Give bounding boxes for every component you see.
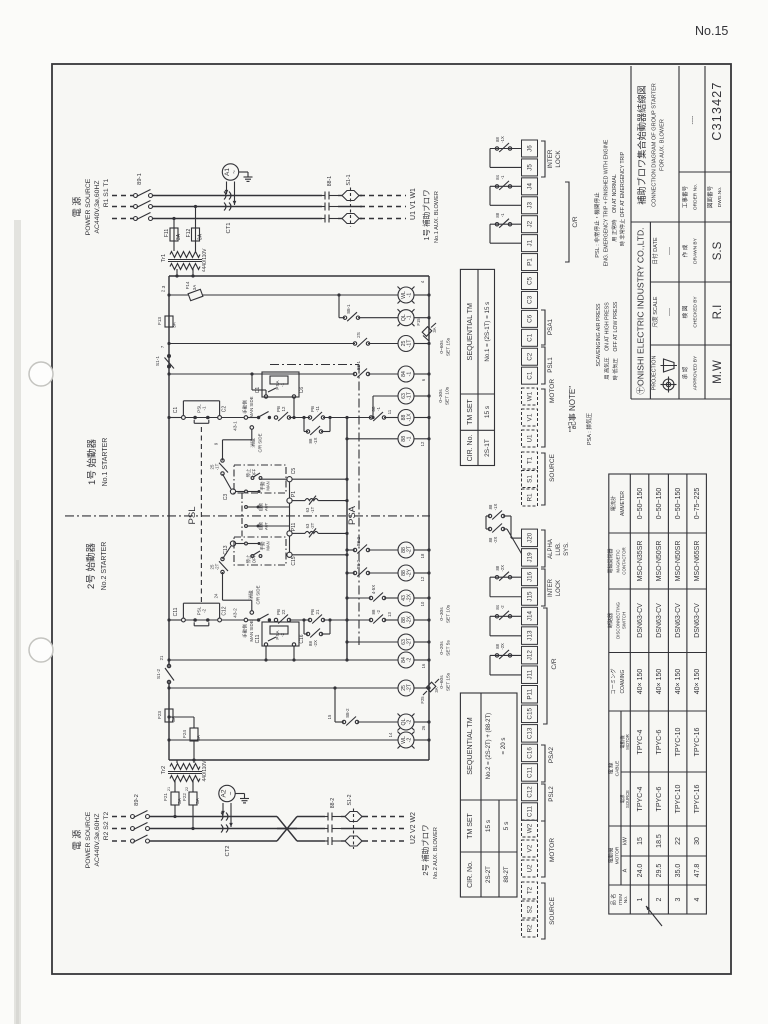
svg-text:21: 21 xyxy=(167,787,171,791)
pushbutton PB-12 xyxy=(274,416,277,419)
power line T1 to motor dashed xyxy=(360,218,406,220)
svg-text:PSL: PSL xyxy=(187,507,198,525)
terminal J13 strip2 xyxy=(522,627,538,645)
table sequential TM No.2 xyxy=(460,693,517,897)
svg-text:LOCK: LOCK xyxy=(555,150,562,168)
svg-text:0~60s: 0~60s xyxy=(439,340,445,354)
svg-text:84-2: 84-2 xyxy=(401,657,413,663)
svg-text:24: 24 xyxy=(214,593,219,598)
power line R1 to motor dashed xyxy=(360,195,406,197)
svg-text:88-1: 88-1 xyxy=(401,436,413,442)
svg-text:MOTOR: MOTOR xyxy=(549,838,556,862)
wire PB-22 to PB-21 xyxy=(289,619,310,621)
paper area xyxy=(52,64,731,974)
CT1 marks xyxy=(224,192,231,211)
overload S1-1 heater top xyxy=(342,191,359,201)
svg-text:MOTOR: MOTOR xyxy=(549,379,556,403)
svg-text:CT2: CT2 xyxy=(225,846,231,857)
svg-text:C13: C13 xyxy=(527,727,534,739)
relay 88-2T coil xyxy=(398,542,414,558)
svg-text:FOR AUX. BLOWER: FOR AUX. BLOWER xyxy=(660,119,666,171)
terminal J6 strip1 xyxy=(522,140,538,157)
svg-text:S1-1: S1-1 xyxy=(155,356,161,366)
terminal J1 strip1 xyxy=(522,235,538,252)
terminal S1 source1 xyxy=(522,471,538,488)
switch 89-2 pole 1 xyxy=(131,811,150,819)
node rung 25-2T to QL-2 xyxy=(333,686,336,689)
svg-text:PSL1: PSL1 xyxy=(547,357,554,373)
item row arrow xyxy=(646,906,662,926)
component table row 3 xyxy=(675,488,682,902)
rung 88-2T wire xyxy=(347,549,355,551)
bracket PSL2 xyxy=(541,784,545,821)
svg-text:断路器: 断路器 xyxy=(607,613,614,628)
svg-text:0~30s: 0~30s xyxy=(439,607,445,621)
svg-text:= 20 s: = 20 s xyxy=(500,737,507,754)
svg-text:C1: C1 xyxy=(527,333,534,342)
svg-text:品 名: 品 名 xyxy=(609,894,617,906)
svg-text:C3: C3 xyxy=(527,295,534,304)
svg-text:日付 DATE: 日付 DATE xyxy=(651,237,659,265)
bracket INTER LOCK strip1 xyxy=(541,141,545,177)
svg-text:15 s: 15 s xyxy=(485,819,492,832)
rung 88-2Y wire xyxy=(347,572,355,574)
svg-text:F14: F14 xyxy=(185,281,190,289)
svg-text:J19: J19 xyxy=(527,552,534,563)
switch 89-2 pole 3 xyxy=(131,835,150,843)
svg-text:10: 10 xyxy=(420,601,425,606)
wire CT1 to A1 xyxy=(226,182,228,195)
svg-text:3A: 3A xyxy=(192,285,197,290)
component table headers xyxy=(607,491,631,906)
svg-text:PSA2: PSA2 xyxy=(548,746,555,763)
svg-text:24.0: 24.0 xyxy=(637,864,644,878)
svg-text:89-1: 89-1 xyxy=(137,173,143,185)
svg-text:C6: C6 xyxy=(527,314,534,323)
control bus top horizontal xyxy=(169,275,429,277)
svg-text:LOCK: LOCK xyxy=(556,580,562,596)
svg-text:J1: J1 xyxy=(527,239,534,246)
svg-text:DSN63-CV: DSN63-CV xyxy=(656,603,663,638)
terminal P11 strip2 xyxy=(522,686,538,704)
pressure switch PSA-1 xyxy=(262,372,299,397)
transformer Tr2 xyxy=(168,760,202,792)
svg-text:MAN SIDE: MAN SIDE xyxy=(249,396,254,417)
svg-text:C3: C3 xyxy=(223,494,229,501)
rung 25-1T wire xyxy=(167,342,170,345)
svg-text:図面番号: 図面番号 xyxy=(707,185,714,208)
component table row 1 xyxy=(637,488,644,902)
svg-text:-1X: -1X xyxy=(493,504,498,511)
svg-text:3A: 3A xyxy=(196,734,201,741)
relay 88-2Y coil xyxy=(398,565,414,581)
svg-text:R1: R1 xyxy=(527,493,534,502)
svg-text:CIR. No.: CIR. No. xyxy=(467,435,474,462)
svg-text:----: ---- xyxy=(667,247,673,255)
terminal J12 strip2 xyxy=(522,646,538,664)
svg-text:C16: C16 xyxy=(299,634,305,643)
svg-text:CABLE: CABLE xyxy=(615,761,621,777)
bracket MOTOR strip2 xyxy=(541,821,545,877)
bracket INTER LOCK strip2 xyxy=(541,569,545,606)
svg-text:V2: V2 xyxy=(527,844,534,852)
terminal C1 of PSA-1 xyxy=(264,395,267,398)
svg-text:TPYC-16: TPYC-16 xyxy=(694,785,701,814)
svg-text:電 源: 電 源 xyxy=(72,830,82,851)
selector switch box 1 xyxy=(234,465,286,493)
AUT contacts between selectors xyxy=(242,493,290,541)
svg-text:PSA: PSA xyxy=(347,505,358,525)
svg-text:29.5: 29.5 xyxy=(656,864,663,878)
fuse F22 xyxy=(189,792,197,805)
power line R2 to motor dashed xyxy=(363,816,406,818)
svg-text:12: 12 xyxy=(420,576,425,581)
rung 25-2T wire xyxy=(167,686,170,689)
svg-text:MOTOR: MOTOR xyxy=(625,734,630,750)
svg-text:SET 15s: SET 15s xyxy=(446,672,452,691)
relay 43-2X coil xyxy=(398,590,414,606)
svg-text:0~20s: 0~20s xyxy=(439,641,445,655)
contact 88-1 aux xyxy=(343,316,346,319)
svg-text:21: 21 xyxy=(159,655,164,660)
svg-text:INTER: INTER xyxy=(547,149,554,168)
svg-text:-2: -2 xyxy=(500,605,505,609)
svg-text:TPYC-6: TPYC-6 xyxy=(656,729,663,754)
svg-text:2号 補助ブロワ: 2号 補助ブロワ xyxy=(420,824,430,875)
svg-text:No.: No. xyxy=(623,896,629,903)
fuse F13 on left bus xyxy=(165,316,173,327)
svg-text:CONNECTION DIAGRAM OF GROUP ST: CONNECTION DIAGRAM OF GROUP STARTER xyxy=(652,83,658,207)
contact on 25-1T rung xyxy=(353,342,356,345)
svg-text:SYS.: SYS. xyxy=(564,542,570,556)
S1-1 dashed enclosure xyxy=(350,188,352,227)
svg-text:DWG.No.: DWG.No. xyxy=(717,187,723,208)
bracket ALPHA LUB SYS xyxy=(541,530,545,567)
wire PB-12 to PB-11 xyxy=(289,417,310,419)
svg-text:消磁: 消磁 xyxy=(250,438,257,448)
transformer Tr1 xyxy=(168,241,202,276)
svg-text:TPYC-4: TPYC-4 xyxy=(637,729,644,754)
svg-text:-2T: -2T xyxy=(310,522,315,529)
svg-text:-1: -1 xyxy=(376,406,381,410)
svg-text:-1X: -1X xyxy=(500,136,505,143)
left control bus vertical xyxy=(168,276,170,668)
fuse F12 tap wire xyxy=(194,205,197,208)
interlock loop 84-2 strip2 xyxy=(490,615,522,617)
power line T1 dashed lead-in xyxy=(112,218,133,220)
contact 88-1 pole 1 xyxy=(322,192,338,200)
svg-text:J16: J16 xyxy=(527,571,534,582)
center heavy vertical node line xyxy=(346,418,348,661)
svg-text:35.0: 35.0 xyxy=(675,864,682,878)
svg-text:21: 21 xyxy=(315,609,320,614)
svg-text:0~75~225: 0~75~225 xyxy=(694,488,701,520)
svg-text:時 低気圧 OFF AT LOW PRESS: 時 低気圧 OFF AT LOW PRESS xyxy=(611,301,619,380)
punch hole lower xyxy=(29,638,53,662)
svg-text:440/110V: 440/110V xyxy=(202,248,208,270)
contact 88-1 pole 2 xyxy=(322,203,338,211)
interlock loop 88-1 strip1 xyxy=(490,223,522,225)
svg-text:コーミング: コーミング xyxy=(609,669,617,695)
parallel contact 88-1X branch xyxy=(303,418,305,432)
lamp WL-1 xyxy=(398,287,414,303)
terminal J2 strip1 xyxy=(522,216,538,233)
svg-text:W2: W2 xyxy=(527,823,534,833)
svg-text:No.1 STARTER: No.1 STARTER xyxy=(102,438,109,487)
svg-text:V1: V1 xyxy=(527,413,534,421)
svg-text:電 線: 電 線 xyxy=(607,763,615,775)
contact on 84-1 rung xyxy=(353,372,356,375)
svg-text:3: 3 xyxy=(675,897,682,901)
svg-text:"記事 NOTE": "記事 NOTE" xyxy=(567,386,577,432)
pushbutton PB-21 xyxy=(308,618,311,621)
svg-text:43-2: 43-2 xyxy=(233,608,239,618)
svg-text:ALPHA: ALPHA xyxy=(548,539,554,559)
svg-text:18: 18 xyxy=(420,553,425,558)
svg-text:kW: kW xyxy=(623,836,629,845)
timer contact 25-1T xyxy=(223,474,232,489)
svg-text:2: 2 xyxy=(161,289,166,292)
svg-text:C11: C11 xyxy=(527,766,534,778)
svg-text:40× 150: 40× 150 xyxy=(656,669,663,695)
svg-text:C11: C11 xyxy=(173,607,179,616)
interlock loop 88-1X strip1 xyxy=(490,148,522,150)
terminal P1 strip1 xyxy=(522,254,538,271)
power line S1 to motor dashed xyxy=(360,206,406,208)
svg-text:3A: 3A xyxy=(176,233,182,240)
terminal P11 xyxy=(287,531,292,536)
power line R1 dashed lead-in xyxy=(112,195,133,197)
svg-text:DSN63-CV: DSN63-CV xyxy=(694,603,701,638)
svg-text:U1 V1 W1: U1 V1 W1 xyxy=(410,188,417,220)
svg-text:C/R SIDE: C/R SIDE xyxy=(256,585,261,604)
svg-text:PSL : 非常停止・機関停止: PSL : 非常停止・機関停止 xyxy=(593,192,601,258)
svg-text:SET 10s: SET 10s xyxy=(445,386,451,405)
terminal C3 strip1 xyxy=(522,291,538,308)
svg-text:1号 始動器: 1号 始動器 xyxy=(86,439,98,485)
relay 84-2 coil xyxy=(398,652,414,668)
svg-text:-1X: -1X xyxy=(313,438,318,445)
terminal C1 strip1 xyxy=(522,367,538,384)
switch 89-2 pole 2 xyxy=(131,823,150,831)
svg-text:J6: J6 xyxy=(527,145,534,152)
svg-text:-2T: -2T xyxy=(215,563,220,570)
svg-text:U2: U2 xyxy=(527,864,534,873)
terminal R1 source1 xyxy=(522,489,538,506)
svg-text:用 正常時 ON AT NORMAL: 用 正常時 ON AT NORMAL xyxy=(610,174,618,242)
svg-text:検 図: 検 図 xyxy=(681,305,689,318)
contact 88-2 pole 1 xyxy=(325,813,341,821)
power line T2 to motor dashed xyxy=(363,840,406,842)
svg-text:13: 13 xyxy=(387,612,392,617)
terminal C11 strip2 xyxy=(522,803,538,821)
rung QL-1 wire xyxy=(339,317,345,319)
svg-text:ENG. EMERGENCY TRIP + FINISHED: ENG. EMERGENCY TRIP + FINISHED WITH ENGI… xyxy=(604,139,610,266)
svg-text:DSN63-CV: DSN63-CV xyxy=(675,603,682,638)
svg-text:J4: J4 xyxy=(527,183,534,190)
svg-text:43-1: 43-1 xyxy=(233,421,239,431)
bracket C/R strip2 xyxy=(543,608,547,724)
bracket PSA1 xyxy=(541,310,545,345)
svg-text:C12: C12 xyxy=(527,786,534,798)
svg-text:MOTOR: MOTOR xyxy=(615,846,621,864)
svg-text:18.5: 18.5 xyxy=(656,834,663,848)
svg-text:-2: -2 xyxy=(376,609,381,613)
svg-text:電 源: 電 源 xyxy=(72,197,82,218)
svg-text:Tr1: Tr1 xyxy=(161,254,167,262)
svg-text:SOURCE: SOURCE xyxy=(625,790,630,808)
svg-text:12: 12 xyxy=(281,406,286,411)
power line T2 dashed lead-in xyxy=(112,840,130,842)
aux contact 63-2T coil symbol xyxy=(305,531,318,533)
svg-text:11: 11 xyxy=(387,409,392,414)
terminal V2 motor2 xyxy=(522,840,538,857)
svg-text:-2X: -2X xyxy=(500,643,505,650)
rung 84-1 wire xyxy=(167,372,170,375)
svg-text:No.2 = (2S-2T) + (88-2T): No.2 = (2S-2T) + (88-2T) xyxy=(486,713,492,779)
power line S1 dashed lead-in xyxy=(112,206,133,208)
terminal J20 strip2 xyxy=(522,529,538,547)
svg-text:C6: C6 xyxy=(299,387,305,394)
svg-text:SWITCH: SWITCH xyxy=(622,612,627,629)
svg-text:15: 15 xyxy=(327,714,332,719)
S1-2 dashed enclosure xyxy=(353,809,355,850)
svg-text:1号 補助ブロワ: 1号 補助ブロワ xyxy=(421,189,431,240)
fuse F23 on left bus xyxy=(165,709,173,722)
power line T2 main xyxy=(150,840,278,842)
svg-text:88-2: 88-2 xyxy=(330,798,336,808)
svg-text:TPYC-10: TPYC-10 xyxy=(675,728,682,757)
bracket C/R strip1 xyxy=(565,182,569,262)
timer 25-1T xyxy=(398,336,414,352)
svg-text:J12: J12 xyxy=(527,650,534,661)
ground at A2 xyxy=(235,793,244,795)
power line R2 dashed lead-in xyxy=(112,816,130,818)
interlock loop 88-2 strip2 xyxy=(490,654,522,656)
svg-text:CT1: CT1 xyxy=(226,223,232,234)
svg-text:1: 1 xyxy=(637,897,644,901)
svg-text:-2X: -2X xyxy=(500,565,505,572)
svg-text:作 成: 作 成 xyxy=(681,244,689,257)
svg-text:P11: P11 xyxy=(527,688,534,699)
svg-text:F25: F25 xyxy=(420,696,425,704)
svg-text:T1: T1 xyxy=(527,456,534,464)
fuse F14 diagonal on rung xyxy=(188,289,203,300)
lamp QL-1 xyxy=(398,310,414,326)
svg-text:3: 3 xyxy=(161,285,167,288)
wires PSA-2 to rung 84-2 xyxy=(265,646,267,660)
selector contact 43-1 on rung xyxy=(244,416,248,420)
terminal J3 strip1 xyxy=(522,197,538,214)
contact on 43-2X rung xyxy=(369,596,372,599)
switch 89-1 pole 3 xyxy=(134,213,153,221)
svg-text:P11: P11 xyxy=(291,523,297,532)
svg-text:0~60s: 0~60s xyxy=(439,675,445,689)
svg-text:S2: S2 xyxy=(527,905,534,913)
svg-text:J14: J14 xyxy=(527,610,534,621)
svg-text:40× 150: 40× 150 xyxy=(675,669,682,695)
overload S1-1 middle wire xyxy=(338,206,362,208)
terminal C6 strip1 xyxy=(522,310,538,327)
divider line between starters xyxy=(65,515,430,517)
svg-text:3A: 3A xyxy=(195,797,200,804)
svg-text:0~30s: 0~30s xyxy=(438,389,444,403)
terminal C16 strip2 xyxy=(522,744,538,762)
svg-text:MAN SIDE: MAN SIDE xyxy=(249,620,254,641)
contact 88-2 pole 2 xyxy=(325,825,341,833)
svg-text:2号 始動器: 2号 始動器 xyxy=(85,543,97,589)
bracket SOURCE strip1 xyxy=(541,453,545,505)
svg-text:S.S: S.S xyxy=(712,241,724,260)
svg-text:440/110V: 440/110V xyxy=(202,760,208,782)
svg-text:88-1: 88-1 xyxy=(346,304,351,314)
svg-text:-1: -1 xyxy=(500,213,505,217)
svg-text:J20: J20 xyxy=(527,532,534,543)
svg-text:J13: J13 xyxy=(527,630,534,641)
svg-text:C/R SIDE: C/R SIDE xyxy=(258,433,263,452)
component table row 4 xyxy=(694,488,701,902)
svg-text:POWER SOURCE: POWER SOURCE xyxy=(85,178,92,235)
terminal C1 of PSL-1 xyxy=(182,416,186,420)
svg-text:AC440V,3ø,60HZ: AC440V,3ø,60HZ xyxy=(94,813,101,866)
terminal C6 of PSA-1 xyxy=(292,395,295,398)
labels U2 V2 W2 / blower 2 xyxy=(410,812,439,879)
svg-text:3A: 3A xyxy=(171,715,176,722)
terminal J16 strip2 xyxy=(522,568,538,586)
svg-text:C313427: C313427 xyxy=(710,81,724,140)
svg-text:SET 10s: SET 10s xyxy=(446,604,452,623)
svg-text:22: 22 xyxy=(185,787,189,791)
timer contact 25-2T xyxy=(223,546,232,559)
svg-text:C15: C15 xyxy=(291,556,297,565)
fuse F21 xyxy=(171,792,179,805)
relay 84-1 xyxy=(398,366,414,382)
svg-text:-2X: -2X xyxy=(313,640,318,647)
terminal P1 xyxy=(287,498,292,503)
wire to junction xyxy=(323,417,371,419)
svg-text:88-2: 88-2 xyxy=(356,536,361,546)
svg-text:SOURCE: SOURCE xyxy=(549,453,556,481)
svg-text:DISCONNECTING: DISCONNECTING xyxy=(616,602,621,639)
svg-text:No.2 STARTER: No.2 STARTER xyxy=(101,542,108,591)
svg-text:0~50~150: 0~50~150 xyxy=(656,488,663,520)
svg-text:2S-2T: 2S-2T xyxy=(485,866,492,883)
svg-text:TM SET: TM SET xyxy=(467,812,474,838)
svg-text:J2: J2 xyxy=(527,220,534,227)
disconnect S1-1 on left bus xyxy=(167,354,171,358)
svg-text:16: 16 xyxy=(421,663,426,668)
bracket MOTOR strip1 xyxy=(541,389,545,447)
svg-text:工事番号: 工事番号 xyxy=(681,185,689,208)
terminal C2 of PSL-1 xyxy=(218,416,222,420)
terminal J5 strip1 xyxy=(522,159,538,176)
svg-text:TM SET: TM SET xyxy=(467,398,474,424)
svg-text:4-5X: 4-5X xyxy=(371,585,376,594)
svg-text:4: 4 xyxy=(694,897,701,901)
svg-text:47.8: 47.8 xyxy=(694,864,701,878)
selector 43-2 C/R side stub xyxy=(250,611,254,615)
wire bus to C11 xyxy=(169,619,182,621)
terminal J11 strip2 xyxy=(522,666,538,684)
svg-text:P1: P1 xyxy=(527,258,534,266)
labels U1 V1 W1 / blower 1 xyxy=(410,188,440,243)
rung 63-2T wire xyxy=(347,641,398,643)
interlock loop 84-1 strip1 xyxy=(490,185,522,187)
svg-text:ORDER No.: ORDER No. xyxy=(693,184,699,210)
svg-text:C1: C1 xyxy=(173,407,179,414)
selector switch box 2 xyxy=(234,537,286,565)
component table row 2 xyxy=(656,488,663,902)
